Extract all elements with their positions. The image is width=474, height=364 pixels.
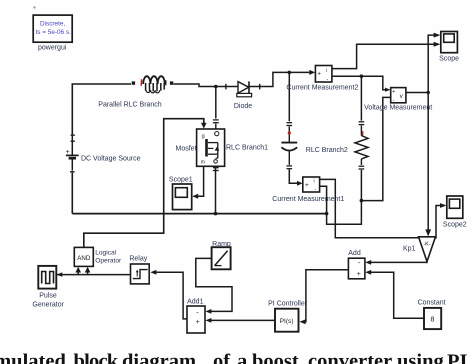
svg-text:g: g bbox=[202, 133, 205, 139]
svg-text:block: block bbox=[74, 351, 119, 364]
svg-text:diagram: diagram bbox=[122, 351, 196, 364]
svg-text:Add1: Add1 bbox=[187, 298, 203, 305]
Pulse Generator block bbox=[38, 266, 56, 289]
svg-text:+: + bbox=[357, 271, 361, 278]
svg-text:Parallel RLC Branch: Parallel RLC Branch bbox=[98, 102, 162, 109]
svg-text:Add: Add bbox=[348, 250, 361, 257]
svg-text:i: i bbox=[326, 68, 327, 74]
Ramp block bbox=[212, 247, 231, 269]
svg-text:Scope2: Scope2 bbox=[443, 222, 467, 229]
AND Logical Operator block bbox=[74, 247, 93, 266]
Add1 block bbox=[187, 306, 205, 333]
svg-text:Logical: Logical bbox=[95, 249, 116, 256]
Scope2 block bbox=[447, 196, 463, 218]
arrow into CM2 bbox=[309, 70, 315, 75]
capacitor C (RLC Branch1) bbox=[281, 131, 297, 168]
Voltage Measurement block bbox=[391, 88, 406, 104]
wire W8 : CM1 physical to bottom node and VM minus bbox=[320, 97, 391, 224]
node J4 : resistor bottom junction bbox=[360, 199, 364, 203]
resistor R (RLC Branch2) bbox=[355, 131, 368, 200]
wire W7 : CM1 signal to Scope2 bbox=[320, 179, 440, 237]
svg-text:boost: boost bbox=[252, 351, 299, 364]
svg-text:PI(s): PI(s) bbox=[280, 318, 294, 325]
node J2 : junction to capacitor branch bbox=[288, 71, 292, 75]
svg-text:Scope1: Scope1 bbox=[169, 176, 193, 183]
wire W1 : DC source top to inductor bbox=[72, 84, 131, 135]
wire W10 : Mosfet source to rail bbox=[213, 166, 219, 213]
svg-text:AND: AND bbox=[77, 255, 91, 262]
Scope block bbox=[441, 32, 458, 53]
speck bbox=[33, 6, 35, 8]
wire W17 : AND output to Mosfet gate bbox=[84, 119, 204, 248]
node J5 : mosfet source on rail bbox=[214, 212, 218, 216]
wire W15 : VM output to Scope and down to Kp1 bbox=[406, 35, 434, 92]
Scope1 block bbox=[173, 184, 192, 210]
svg-text:converter: converter bbox=[308, 351, 392, 364]
inductor L (Parallel RLC Branch) bbox=[132, 76, 174, 93]
DC Voltage Source battery bbox=[66, 135, 79, 213]
Mosfet block bbox=[197, 129, 225, 166]
svg-text:Voltage Measurement: Voltage Measurement bbox=[364, 105, 432, 112]
svg-text:+: + bbox=[305, 182, 309, 189]
svg-text:i: i bbox=[314, 179, 315, 185]
wire W4 : junction down to Mosfet drain bbox=[213, 87, 219, 130]
Current Measurement2 block bbox=[315, 66, 332, 83]
svg-text:powergui: powergui bbox=[38, 45, 67, 52]
svg-text:Kp1: Kp1 bbox=[403, 245, 416, 252]
wire W16 : Mosfet m output to Scope1 bbox=[198, 166, 204, 196]
svg-text:Simulated: Simulated bbox=[0, 351, 66, 364]
svg-text:Diode: Diode bbox=[234, 103, 252, 110]
svg-text:Constant: Constant bbox=[418, 299, 446, 306]
svg-text:a: a bbox=[237, 351, 247, 364]
wire W21 : PI output to Add1 in2 bbox=[211, 319, 275, 321]
wire W9 : bottom rail bbox=[72, 213, 326, 215]
Constant block bbox=[424, 308, 441, 329]
wire W23 : Kp1 output to Add in1 bbox=[365, 260, 427, 265]
Current Measurement1 block bbox=[303, 177, 320, 193]
svg-text:using: using bbox=[397, 351, 444, 364]
svg-text:Generator: Generator bbox=[32, 302, 64, 309]
wire W14 : CM2 physical to VM plus bbox=[332, 76, 386, 90]
diode D bbox=[226, 81, 260, 96]
wire W3 : diode to Current Measurement2 bbox=[260, 72, 310, 86]
wire W24 : Constant to Add in2 bbox=[365, 270, 424, 318]
node J1 : junction diode wire / mosfet drain bbox=[214, 85, 218, 89]
svg-text:RLC Branch1: RLC Branch1 bbox=[226, 145, 268, 152]
svg-text:+: + bbox=[196, 319, 200, 326]
powergui block bbox=[33, 15, 72, 42]
PI Controller block bbox=[275, 309, 299, 332]
node J6 : junction to resistor branch bbox=[360, 74, 364, 78]
svg-text:Ramp: Ramp bbox=[212, 241, 231, 248]
gain Kp1 bbox=[419, 237, 436, 262]
Add block bbox=[348, 258, 365, 279]
wire W22 : Add output to PI input bbox=[305, 270, 348, 322]
Relay block bbox=[131, 264, 150, 284]
svg-text:RLC Branch2: RLC Branch2 bbox=[306, 147, 348, 154]
wire W11 : down to resistor bbox=[359, 76, 365, 135]
wire W2 : inductor to diode bbox=[174, 84, 226, 87]
svg-text:+: + bbox=[392, 89, 395, 95]
svg-text:+: + bbox=[317, 70, 321, 77]
svg-text:Discrete,: Discrete, bbox=[40, 21, 65, 28]
wire W13 : CM2 signal to Scope bbox=[332, 44, 434, 68]
svg-text:Relay: Relay bbox=[129, 256, 147, 263]
svg-text:Pulse: Pulse bbox=[39, 292, 57, 299]
wire W5 : junction down to capacitor bbox=[287, 72, 293, 142]
svg-text:of: of bbox=[213, 351, 231, 364]
arrow into CM1 bbox=[297, 181, 303, 186]
svg-text:ts = 5e-06 s.: ts = 5e-06 s. bbox=[36, 29, 72, 36]
arrow into Add1 in2 bbox=[205, 318, 211, 323]
svg-text:Current Measurement2: Current Measurement2 bbox=[286, 85, 358, 92]
svg-text:DC Voltage Source: DC Voltage Source bbox=[81, 155, 141, 162]
wire W18 : Relay output to AND inputs and Pulse Generator bbox=[57, 267, 131, 277]
svg-text:Mosfet: Mosfet bbox=[175, 146, 196, 153]
svg-text:PI Controller: PI Controller bbox=[268, 301, 308, 308]
node J3 : rail end junction bbox=[325, 212, 329, 216]
caption bbox=[0, 351, 468, 364]
wire W20 : Ramp output to Add1 in1 bbox=[196, 258, 232, 311]
svg-text:Operator: Operator bbox=[95, 257, 122, 264]
svg-text:m: m bbox=[201, 160, 205, 166]
wire W6 : capacitor to Current Measurement1 bbox=[289, 170, 297, 184]
arrow into Add1 in1 bbox=[205, 309, 211, 314]
svg-text:-K-: -K- bbox=[423, 242, 431, 248]
wire W19 : Add1 output to Relay input bbox=[156, 272, 187, 319]
svg-text:8: 8 bbox=[431, 317, 435, 324]
svg-text:Scope: Scope bbox=[439, 55, 459, 62]
svg-text:-: - bbox=[393, 97, 395, 103]
svg-text:v: v bbox=[400, 94, 403, 100]
svg-text:Current Measurement1: Current Measurement1 bbox=[272, 196, 344, 203]
svg-text:PI: PI bbox=[447, 351, 468, 364]
